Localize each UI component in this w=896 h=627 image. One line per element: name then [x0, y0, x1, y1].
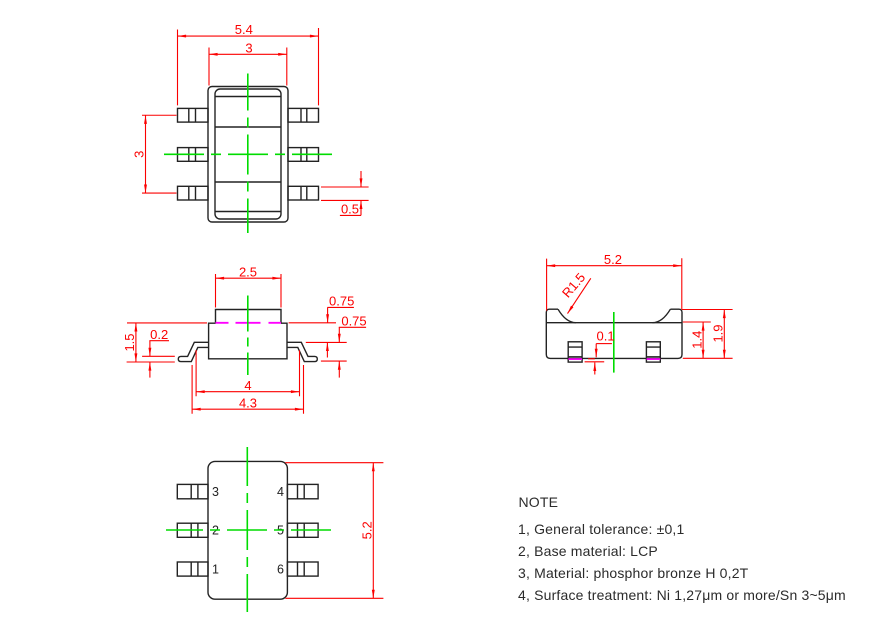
- side view vertical center line: [247, 296, 249, 376]
- top view left pin 1: [178, 108, 209, 122]
- dimension 0.75 lower bottom arrow: [338, 361, 340, 378]
- bottom view vertical center line: [246, 447, 248, 612]
- top view left pin 2: [178, 148, 209, 162]
- svg-text:3: 3: [132, 151, 147, 158]
- dimension 1.4 line: [702, 322, 704, 358]
- top view upper contact band: [215, 97, 281, 128]
- svg-text:1: 1: [212, 563, 219, 577]
- svg-text:3, Material: phosphor bronze H: 3, Material: phosphor bronze H 0,2T: [518, 565, 749, 581]
- side foot-bottom extension line right: [321, 360, 347, 362]
- dimension 0.1 leader line and arrow: [596, 343, 612, 345]
- top view right pin 3: [288, 186, 319, 200]
- dimension 0.75 upper lower arrow: [326, 342, 328, 357]
- dimension 2.5 line: [216, 277, 282, 279]
- top view right pin 1: [288, 108, 319, 122]
- dimension 5.2 line: [547, 265, 682, 267]
- dimension 4 extension lines: [196, 350, 299, 396]
- bottom view body outline: [208, 461, 287, 599]
- side view left gull-wing lead: [178, 342, 208, 361]
- svg-text:R1.5: R1.5: [559, 270, 588, 301]
- dimension 1.9 extension line: [682, 309, 733, 311]
- dimension 1.9 line: [723, 310, 725, 359]
- dimension 4 line: [196, 391, 299, 393]
- dimension 4.3 line: [192, 408, 303, 410]
- dimension 0.75 lower underline and leader arrow: [339, 326, 366, 328]
- front view body top line: [546, 322, 682, 324]
- top view left pin 3: [178, 186, 209, 200]
- svg-text:0.5: 0.5: [341, 201, 359, 216]
- svg-text:4.3: 4.3: [239, 395, 257, 410]
- bottom view horizontal center line: [166, 529, 335, 531]
- dimension 5.4 extension lines: [178, 28, 319, 105]
- dimension 1.4 extension line: [683, 321, 711, 323]
- dimension 5.2 extension lines: [547, 258, 682, 310]
- dimension 3 width line: [209, 53, 287, 55]
- dimension 0.2 underline and leader arrow: [149, 340, 169, 342]
- seating plane extension tick: [588, 358, 595, 360]
- svg-text:3: 3: [245, 40, 252, 55]
- svg-text:1.4: 1.4: [689, 331, 704, 349]
- bottom view pin 3: [177, 484, 208, 498]
- front view right foot: [646, 342, 660, 362]
- bottom view pin 6: [287, 562, 318, 576]
- top view body inner outline: [215, 89, 281, 219]
- dimension 1.5 line: [135, 323, 137, 362]
- svg-text:1.5: 1.5: [122, 333, 137, 351]
- dimension 0.75 upper underline and leader arrow: [327, 306, 354, 308]
- front view vertical center line: [613, 312, 615, 373]
- svg-text:2.5: 2.5: [239, 264, 257, 279]
- top view right pin 2: [288, 148, 319, 162]
- dimension 0.2 lower arrow: [149, 362, 151, 378]
- svg-text:0.2: 0.2: [150, 327, 168, 342]
- dimension 2.5 extension lines: [216, 274, 282, 308]
- side view right gull-wing lead: [287, 342, 317, 361]
- side view body: [209, 323, 287, 359]
- side view stem top line (magenta): [216, 322, 282, 324]
- front view left foot seating line (magenta): [568, 358, 582, 360]
- svg-text:NOTE: NOTE: [519, 494, 559, 510]
- dimension 0.5 underline: [340, 214, 361, 216]
- svg-text:2, Base material: LCP: 2, Base material: LCP: [518, 543, 658, 559]
- dimension 5.2 height line: [372, 463, 374, 599]
- svg-text:4: 4: [277, 485, 284, 499]
- dimension 3 pitch line: [145, 115, 147, 193]
- dimension 3 pitch extension lines: [142, 115, 177, 193]
- bottom view pin 1: [177, 562, 208, 576]
- bottom view pin 2: [177, 523, 208, 537]
- svg-text:1.9: 1.9: [711, 324, 726, 342]
- dimension 0.5 lower arrow: [360, 200, 362, 215]
- dimension 5.4 line: [178, 35, 319, 37]
- svg-text:5.4: 5.4: [235, 22, 253, 37]
- bottom view pin 5: [287, 523, 318, 537]
- svg-text:6: 6: [277, 563, 284, 577]
- side body-top extension line right: [289, 322, 336, 324]
- front view body outline: [546, 309, 682, 358]
- front body-bottom extension line: [683, 357, 733, 359]
- svg-text:0.75: 0.75: [341, 313, 366, 328]
- svg-text:0.1: 0.1: [597, 328, 615, 343]
- dimension 0.5 upper arrow: [360, 171, 362, 187]
- svg-text:0.75: 0.75: [329, 293, 354, 308]
- dimension 0.5 extension lines: [321, 187, 369, 200]
- svg-text:4, Surface treatment: Ni 1,27μ: 4, Surface treatment: Ni 1,27μm or more/…: [518, 587, 846, 603]
- front view right foot seating line (magenta): [647, 358, 661, 360]
- side lead-top extension line right: [306, 341, 347, 343]
- svg-text:1, General tolerance: ±0,1: 1, General tolerance: ±0,1: [518, 521, 684, 537]
- dimension 3 width extension lines: [209, 48, 287, 86]
- dimension 5.2 height extension lines: [285, 463, 383, 599]
- dimension 0.1 lower arrow: [594, 362, 596, 374]
- top view body outer outline: [208, 87, 288, 223]
- svg-text:3: 3: [212, 485, 219, 499]
- svg-text:5.2: 5.2: [360, 521, 375, 539]
- svg-text:4: 4: [244, 378, 251, 393]
- top view vertical center line: [247, 74, 249, 234]
- side body-top extension line left: [127, 322, 207, 324]
- bottom view pin 4: [287, 484, 318, 498]
- svg-text:5.2: 5.2: [604, 252, 622, 267]
- front foot-bottom extension line: [585, 361, 605, 363]
- side foot-bottom extension line left: [127, 361, 175, 363]
- top view lower contact band: [215, 182, 281, 212]
- side view button: [216, 310, 282, 323]
- side foot-top extension line left: [142, 355, 175, 357]
- front view left foot: [568, 342, 582, 362]
- dimension 4.3 extension lines: [192, 365, 303, 414]
- radius R1.5 leader arrow: [568, 278, 591, 313]
- top view horizontal center line: [164, 153, 334, 155]
